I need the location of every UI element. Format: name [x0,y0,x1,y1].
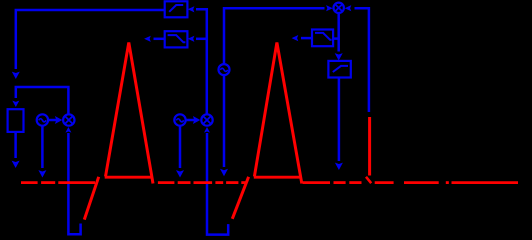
box F4 (rising limiter block right) [328,61,350,78]
arrowhead box4 output down [335,163,343,170]
waveform triangle 1 [106,43,154,184]
wire M3 right input from tap [355,8,369,112]
waveform flyback 2 [232,177,248,219]
arrowhead S2 line down [176,170,184,177]
wire S3 down to arrow [223,75,226,167]
wire F2 input from right [196,38,207,41]
box F3 (falling ramp block right) [312,30,333,47]
wire box A output [14,132,17,158]
wire S1 to M1 [48,119,56,122]
arrowhead into box A [12,101,19,107]
box F1 (rising limiter block) [165,1,188,17]
arrowhead up into M1 bottom [65,127,71,133]
wire box3 output left [301,37,312,40]
sine source S2 [174,114,185,125]
waveform flyback 1 [84,177,98,220]
wire below M2 down to hook [207,133,228,235]
wire M2 top up to F1/F2 tee [196,9,207,114]
arrowhead S2 to M2 [193,116,200,124]
sine source S3 [219,64,230,75]
arrowhead box A output down [12,161,20,168]
wire S2 to M2 [186,119,195,122]
wire F2 output left [154,38,165,41]
wire tee to box A and M1 [16,87,69,114]
arrowhead tee down [12,72,20,79]
arrowhead S1 line down [38,170,46,177]
wire box3 stub to vertical [333,37,339,40]
arrowhead up into M2 bottom [204,127,210,133]
arrowhead S3 line down [220,169,228,176]
waveform flyback 3 foot [366,177,371,183]
wire below M1 down to hook [68,133,80,234]
multiplier M2 [201,114,212,125]
wire branch corner down through S3 [224,8,325,64]
arrowhead into M3 left [326,5,333,11]
box A (empty block) [8,109,24,132]
wire top-left horizontal to box F1 [16,10,165,69]
wire S1 output down [41,126,44,168]
arrowhead box3 output left [292,35,299,41]
sine source S1 [37,114,48,125]
wire S2 output down [179,126,182,168]
waveform triangle 2 base [254,176,300,179]
waveform triangle 2 [254,43,301,184]
arrowhead into F2 right [188,36,195,42]
multiplier M1 [63,114,74,125]
waveform spike 3 vertical [368,117,371,176]
wire M3 output down [337,14,340,52]
multiplier M3 [334,3,344,13]
arrowhead into F1 right [188,6,195,12]
arrowhead into M3 right [345,5,352,11]
arrowhead S1 to M1 [55,116,62,124]
arrowhead F2 output left [144,36,151,42]
arrowhead M3 output into box4 [335,53,343,60]
wire box4 output down [338,78,341,162]
baseline dashes [21,181,518,184]
box F2 (falling ramp block) [165,31,188,47]
waveform triangle 1 base [105,176,153,179]
